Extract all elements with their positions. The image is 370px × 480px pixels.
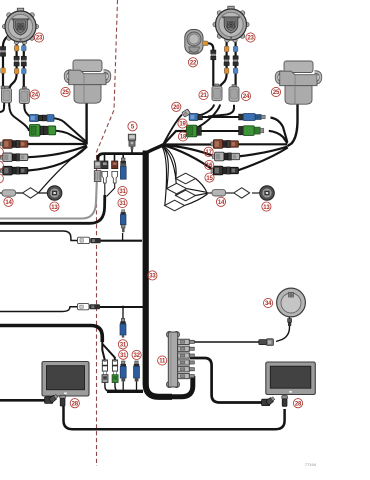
svg-text:25: 25 xyxy=(273,90,280,96)
svg-text:28: 28 xyxy=(72,401,79,407)
svg-text:32: 32 xyxy=(133,353,140,359)
svg-text:33: 33 xyxy=(149,274,156,280)
svg-text:17: 17 xyxy=(205,150,212,156)
svg-text:14: 14 xyxy=(218,200,225,206)
svg-text:19: 19 xyxy=(179,122,186,128)
svg-text:21: 21 xyxy=(200,93,207,99)
svg-text:22: 22 xyxy=(190,61,197,67)
svg-text:13: 13 xyxy=(263,205,270,211)
svg-text:23: 23 xyxy=(247,36,254,42)
svg-text:20: 20 xyxy=(173,105,180,111)
svg-text:31: 31 xyxy=(120,343,127,349)
svg-text:28: 28 xyxy=(295,401,302,407)
svg-text:34: 34 xyxy=(265,301,272,307)
svg-text:31: 31 xyxy=(119,189,126,195)
svg-text:23: 23 xyxy=(36,36,43,42)
svg-text:14: 14 xyxy=(5,200,12,206)
svg-text:25: 25 xyxy=(62,90,69,96)
svg-text:77194: 77194 xyxy=(305,462,317,467)
svg-text:18: 18 xyxy=(180,135,187,141)
svg-text:15: 15 xyxy=(206,176,213,182)
svg-text:24: 24 xyxy=(243,94,250,100)
svg-text:31: 31 xyxy=(119,201,126,207)
svg-text:13: 13 xyxy=(51,205,58,211)
svg-text:24: 24 xyxy=(32,93,39,99)
svg-text:31: 31 xyxy=(120,353,127,359)
svg-text:16: 16 xyxy=(206,163,213,169)
svg-text:11: 11 xyxy=(159,359,166,365)
